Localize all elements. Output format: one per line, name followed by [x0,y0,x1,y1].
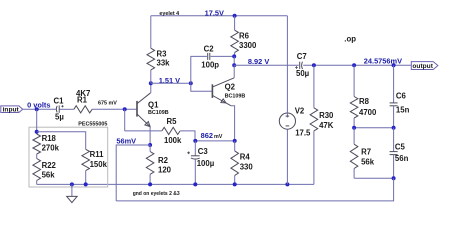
svg-text:862: 862 [201,131,213,140]
wire 56mV return rail [116,178,393,201]
wire V2 bottom to gnd rail [286,129,288,184]
svg-text:eyelet 4: eyelet 4 [159,11,179,17]
resistor R11 [82,149,108,184]
svg-text:C3: C3 [198,147,209,156]
svg-text:C7: C7 [297,52,307,61]
svg-text:R6: R6 [239,32,250,41]
transistor Q1 [137,93,169,127]
svg-text:C5: C5 [395,143,406,152]
capacitor C6 [390,65,410,127]
ground [67,184,77,202]
svg-text:270k: 270k [42,143,60,152]
svg-text:R7: R7 [361,148,371,157]
svg-text:50µ: 50µ [296,69,310,78]
capacitor C5 [390,128,409,179]
resistor R5 [162,117,195,145]
wire 1.51V node to C2/Q2 branch [151,82,191,84]
junction 8.92V node [232,63,236,67]
junction 56mV node [148,143,152,147]
junction divider top [35,130,39,134]
junction gnd R4 [233,182,237,186]
svg-text:C6: C6 [396,92,407,101]
wire up to C2 [191,56,207,83]
svg-text:4700: 4700 [359,108,377,117]
junction C6 top [392,63,396,67]
output port flag [411,62,438,71]
svg-text:3300: 3300 [239,41,257,50]
resistor R22 [33,154,57,184]
wire input node down to divider [36,109,38,134]
svg-text:R11: R11 [90,150,105,159]
svg-text:56mV: 56mV [116,136,136,145]
svg-text:input: input [3,107,20,114]
svg-text:17.5: 17.5 [295,129,311,138]
svg-text:330: 330 [240,162,254,171]
svg-text:5µ: 5µ [55,113,64,122]
svg-text:120: 120 [158,166,172,175]
resistor R4 [231,141,253,185]
wire top rail down to V2 [286,16,288,118]
wire Q1 collector up to 1.51V node [150,83,152,93]
capacitor C3 [187,141,214,185]
svg-text:PEC555005: PEC555005 [78,122,107,128]
svg-text:17.5V: 17.5V [205,8,224,17]
wire Q2 base branch down [191,83,212,91]
resistor R7 [350,128,374,179]
svg-text:56n: 56n [395,154,409,163]
wire 862mV rail [195,140,234,142]
resistor R1 [74,89,92,113]
svg-text:15n: 15n [396,106,410,115]
svg-text:33k: 33k [157,58,171,67]
svg-text:output: output [412,63,433,70]
resistor R2 [146,145,171,184]
capacitor C2 [201,44,219,69]
wire top supply rail [151,15,288,17]
resistor R30 [310,65,334,184]
output rail 8.92V to output [234,64,299,66]
wire R1 to Q1 base [92,108,137,110]
svg-text:BC109B: BC109B [225,94,246,100]
input port flag [1,106,23,114]
transistor Q2 [212,78,245,106]
svg-text:V2: V2 [295,107,305,116]
junction gnd R2 [148,182,152,186]
junction C3 top [193,139,197,143]
junction gnd V2 [285,182,289,186]
junction R6 bottom / C2 [232,54,236,58]
junction C5 bottom [392,176,396,180]
capacitor C7 [295,52,309,78]
junction input node [35,107,39,111]
svg-text:100µ: 100µ [197,159,215,168]
junction Q1 base node [123,107,127,111]
junction R11 bottom [84,182,88,186]
svg-text:56k: 56k [361,157,375,166]
resistor R18 [33,134,60,154]
svg-text:C1: C1 [54,97,65,106]
wire junction down to 8.92V rail [233,56,235,65]
svg-text:R18: R18 [42,134,57,143]
svg-text:0 volts: 0 volts [27,100,50,109]
voltage source V2 [279,16,311,138]
svg-text:Q1: Q1 [148,100,159,109]
svg-text:BC109B: BC109B [148,110,169,116]
wire C1 to R1 [60,108,74,110]
ground rail [37,183,314,185]
wire down-node to R5 [125,130,162,132]
PEC555005 box [29,127,108,187]
Q1 emitter node wire down [149,127,151,145]
svg-text:R2: R2 [158,156,169,165]
wire Q2 collector up [233,65,235,78]
junction gnd tap [70,182,74,186]
wire C7 to output [303,64,411,66]
svg-text:R22: R22 [42,161,57,170]
svg-text:R3: R3 [157,49,168,58]
junction R8 bottom [352,126,356,130]
resistor R3 [147,16,170,83]
capacitor C1 [54,97,65,122]
svg-text:24.5756mV: 24.5756mV [364,57,402,66]
wire input to C1 [23,108,56,110]
svg-text:47K: 47K [319,121,334,130]
wire divider top to R11 [37,132,86,150]
junction R30 top [312,63,316,67]
wire 56mV node to left and down [116,145,150,201]
svg-text:56k: 56k [42,170,56,179]
svg-text:675 mV: 675 mV [98,100,117,106]
svg-text:150k: 150k [90,160,108,169]
svg-text:mV: mV [214,134,223,140]
junction R8 top [352,63,356,67]
svg-text:100k: 100k [164,136,182,145]
svg-text:.op: .op [344,34,356,43]
junction gnd C3 [193,182,197,186]
svg-text:Q2: Q2 [225,83,236,92]
svg-text:C2: C2 [204,44,215,53]
wire R8/C6 bottoms [354,127,394,129]
resistor R8 [350,65,377,127]
junction R4 top / Q2 emitter [233,139,237,143]
svg-text:8.92 V: 8.92 V [248,57,269,66]
svg-text:R5: R5 [167,117,178,126]
wire C2 to collector node [211,55,235,57]
junction C6 bottom [392,126,396,130]
svg-text:R4: R4 [240,153,251,162]
wire R7 bottom to C5 bottom [354,177,394,179]
svg-text:R8: R8 [359,97,370,106]
junction R6 top [233,14,237,18]
junction C2/base branch [189,81,193,85]
svg-text:gnd on eyelets 2 &3: gnd on eyelets 2 &3 [133,191,180,197]
wire Q1 base node down [124,109,126,131]
svg-text:R30: R30 [319,111,334,120]
svg-text:R1: R1 [77,95,88,104]
wire Q2 emitter down [231,106,235,141]
svg-text:100p: 100p [201,61,219,70]
junction node 1.51V [149,81,153,85]
resistor R6 [231,16,257,57]
